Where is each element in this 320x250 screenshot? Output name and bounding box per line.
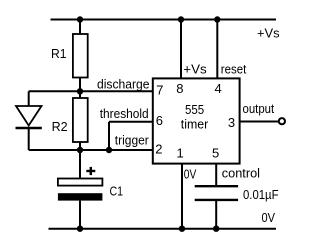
svg-text:3: 3 xyxy=(228,115,235,130)
wire pin 4 from rail xyxy=(216,20,218,79)
wire pin 8 from rail xyxy=(180,20,182,79)
wire bottom 0V rail xyxy=(49,228,277,230)
node junction dot bottom rail pin 5 xyxy=(213,226,219,232)
svg-text:0V: 0V xyxy=(184,167,197,182)
capacitor C1 bottom plate xyxy=(58,193,103,200)
resistor R1 xyxy=(73,34,88,78)
svg-text:threshold: threshold xyxy=(100,106,149,121)
node junction dot threshold tap xyxy=(106,147,112,153)
wire pin 3 output xyxy=(240,121,279,123)
wire pin 1 to 0V rail xyxy=(181,164,183,229)
svg-text:timer: timer xyxy=(181,116,209,131)
node discharge junction dot xyxy=(77,88,83,94)
svg-text:7: 7 xyxy=(156,82,163,97)
node junction dot R2/C1 xyxy=(77,147,83,153)
svg-text:5: 5 xyxy=(212,146,219,161)
svg-text:6: 6 xyxy=(156,113,163,128)
wire diode anode xyxy=(28,91,30,107)
diode D1 cathode bar xyxy=(16,127,42,130)
capacitor C1 plus sign xyxy=(86,170,95,172)
wire control capacitor to 0V rail xyxy=(215,201,217,229)
node junction dot top rail pin 4 xyxy=(214,16,220,22)
svg-text:control: control xyxy=(222,165,260,180)
svg-text:+Vs: +Vs xyxy=(257,25,280,40)
node junction dot bottom rail C1 xyxy=(77,226,83,232)
svg-text:1: 1 xyxy=(177,146,184,161)
wire discharge to pin 7 xyxy=(29,90,153,92)
svg-text:R2: R2 xyxy=(52,119,68,134)
node junction dot top rail above R1 xyxy=(77,16,83,22)
diode D1 triangle xyxy=(16,106,42,126)
wire diode cathode xyxy=(28,128,30,150)
svg-text:discharge: discharge xyxy=(97,77,150,92)
svg-text:R1: R1 xyxy=(51,46,67,61)
wire C1 bottom xyxy=(79,201,81,229)
wire R1 top xyxy=(79,20,81,35)
node junction dot bottom rail pin 1 xyxy=(179,226,185,232)
wire pin 5 to control capacitor xyxy=(215,164,217,186)
capacitor control 0.01uF bottom plate xyxy=(195,199,238,201)
wire C1 top xyxy=(79,150,81,179)
svg-text:+Vs: +Vs xyxy=(183,61,207,76)
svg-text:trigger: trigger xyxy=(115,133,150,148)
svg-text:0V: 0V xyxy=(262,210,276,225)
svg-text:2: 2 xyxy=(155,142,162,157)
svg-text:4: 4 xyxy=(215,81,222,96)
svg-text:C1: C1 xyxy=(110,184,124,199)
wire top +Vs rail xyxy=(51,19,277,21)
output terminal circle xyxy=(279,118,285,124)
wire R1 bottom to discharge node xyxy=(79,78,81,99)
wire threshold to pin 6 xyxy=(109,121,153,123)
svg-text:8: 8 xyxy=(176,81,183,96)
wire trigger line to pin 2 xyxy=(29,149,153,151)
svg-text:output: output xyxy=(243,101,275,116)
resistor R2 xyxy=(73,98,88,142)
node junction dot top rail pin 8 xyxy=(178,16,184,22)
op-amp U1 555 timer IC body xyxy=(153,78,240,163)
svg-text:reset: reset xyxy=(221,61,247,76)
wire R2 bottom xyxy=(79,142,81,150)
svg-text:555: 555 xyxy=(185,102,204,117)
capacitor C1 top plate xyxy=(58,179,103,186)
capacitor control 0.01uF top plate xyxy=(195,185,238,187)
svg-text:0.01µF: 0.01µF xyxy=(243,187,279,202)
wire threshold vertical xyxy=(108,122,110,150)
